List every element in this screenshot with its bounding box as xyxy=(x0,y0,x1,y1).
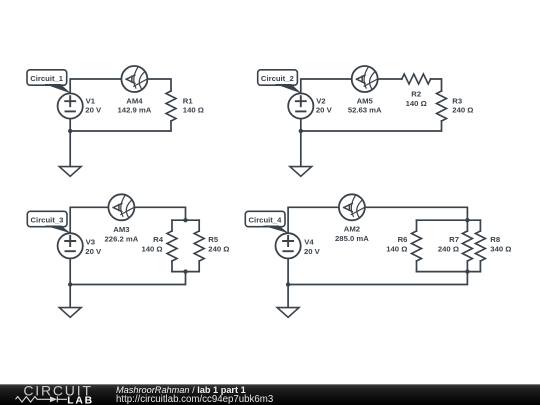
svg-text:MashroorRahman / lab 1 part 1: MashroorRahman / lab 1 part 1 xyxy=(116,385,246,395)
svg-text:52.63 mA: 52.63 mA xyxy=(348,105,382,114)
svg-text:240 Ω: 240 Ω xyxy=(208,245,229,254)
svg-text:LAB: LAB xyxy=(67,395,94,405)
svg-text:240 Ω: 240 Ω xyxy=(452,105,473,114)
svg-text:R7: R7 xyxy=(449,235,459,244)
svg-text:140 Ω: 140 Ω xyxy=(406,99,427,108)
svg-text:R6: R6 xyxy=(398,235,408,244)
svg-text:340 Ω: 340 Ω xyxy=(490,245,511,254)
svg-text:240 Ω: 240 Ω xyxy=(438,245,459,254)
svg-text:V4: V4 xyxy=(304,237,314,246)
svg-text:140 Ω: 140 Ω xyxy=(141,245,162,254)
svg-text:R4: R4 xyxy=(153,235,164,244)
svg-text:285.0 mA: 285.0 mA xyxy=(335,234,369,243)
svg-text:142.9 mA: 142.9 mA xyxy=(118,105,152,114)
svg-text:140 Ω: 140 Ω xyxy=(386,245,407,254)
svg-text:V2: V2 xyxy=(316,97,325,106)
svg-text:R3: R3 xyxy=(452,97,462,106)
svg-text:http://circuitlab.com/cc94ep7u: http://circuitlab.com/cc94ep7ubk6m3 xyxy=(116,394,273,405)
svg-text:226.2 mA: 226.2 mA xyxy=(105,234,139,243)
svg-text:20 V: 20 V xyxy=(304,247,321,256)
svg-text:R5: R5 xyxy=(208,235,219,244)
svg-text:AM2: AM2 xyxy=(344,224,360,233)
svg-text:Circuit_1: Circuit_1 xyxy=(30,74,64,83)
svg-text:20 V: 20 V xyxy=(85,247,102,256)
svg-text:V1: V1 xyxy=(86,97,96,106)
svg-text:R8: R8 xyxy=(490,235,501,244)
svg-text:Circuit_3: Circuit_3 xyxy=(31,215,64,224)
svg-text:R1: R1 xyxy=(183,97,194,106)
svg-text:20 V: 20 V xyxy=(316,105,333,114)
svg-text:V3: V3 xyxy=(86,237,95,246)
svg-text:Circuit_2: Circuit_2 xyxy=(261,74,294,83)
svg-text:20 V: 20 V xyxy=(85,105,102,114)
svg-text:140 Ω: 140 Ω xyxy=(183,105,204,114)
svg-text:R2: R2 xyxy=(411,90,421,99)
svg-text:Circuit_4: Circuit_4 xyxy=(249,215,283,224)
svg-text:AM5: AM5 xyxy=(357,97,374,106)
svg-text:AM4: AM4 xyxy=(126,97,143,106)
svg-text:AM3: AM3 xyxy=(113,225,129,234)
